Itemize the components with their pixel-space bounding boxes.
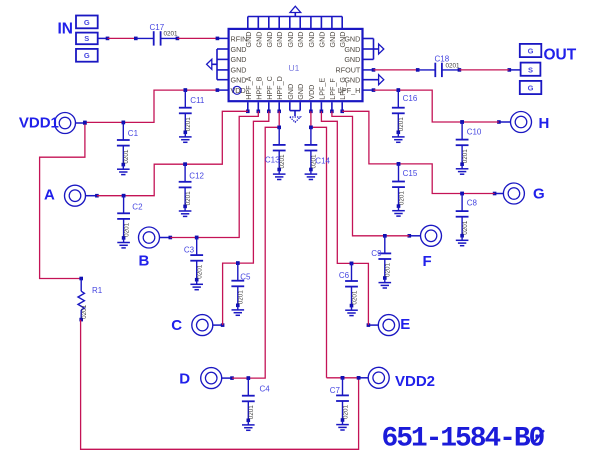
capacitor C1 bbox=[117, 121, 139, 167]
svg-text:GND: GND bbox=[344, 34, 360, 43]
svg-text:GND: GND bbox=[286, 84, 295, 100]
wire net A : HPF_A to port A bbox=[97, 111, 248, 197]
svg-text:GND: GND bbox=[328, 32, 337, 48]
svg-text:C8: C8 bbox=[467, 199, 478, 208]
wire C18 to OUT bbox=[459, 69, 509, 71]
pad G (OUT bottom) bbox=[520, 81, 542, 94]
svg-text:C6: C6 bbox=[339, 271, 350, 280]
right pin labels bbox=[336, 34, 361, 95]
wire net VDD pin (IC bottom) to VDD2 bbox=[309, 111, 326, 378]
svg-text:VDD2: VDD2 bbox=[395, 373, 435, 390]
wire net B : HPF_B to port B bbox=[170, 111, 258, 239]
svg-text:0201: 0201 bbox=[123, 222, 130, 237]
svg-text:0201: 0201 bbox=[446, 63, 461, 70]
IN S pad stub bbox=[98, 37, 110, 41]
wire net E : LPF_E to port E bbox=[321, 111, 368, 325]
svg-text:0201: 0201 bbox=[398, 117, 405, 132]
svg-text:C17: C17 bbox=[150, 23, 165, 32]
svg-text:651-1584-B0: 651-1584-B0 bbox=[382, 423, 545, 454]
wire C17 to RFIN bbox=[177, 37, 217, 39]
slash of zero in part number bbox=[535, 430, 544, 441]
port F bbox=[408, 225, 442, 270]
capacitor C5 bbox=[231, 261, 251, 307]
ground of C8 bbox=[456, 236, 469, 246]
pad S (OUT) bbox=[521, 63, 541, 76]
pin circle on VDD pin bbox=[233, 86, 241, 94]
svg-text:0201: 0201 bbox=[342, 404, 349, 419]
ground of C3 bbox=[190, 280, 203, 290]
wire net VDD1 row bbox=[85, 88, 219, 124]
right GND bracket bbox=[363, 39, 379, 60]
ground of C14 bbox=[305, 170, 318, 180]
capacitor C12 bbox=[179, 162, 205, 208]
ground of C7 bbox=[336, 420, 349, 430]
capacitor C9 bbox=[371, 234, 391, 280]
svg-text:0201: 0201 bbox=[197, 264, 204, 279]
ground of C6 bbox=[345, 306, 358, 316]
capacitor C15 bbox=[392, 162, 418, 208]
svg-text:RFOUT: RFOUT bbox=[336, 66, 361, 75]
svg-text:RFIN: RFIN bbox=[231, 34, 248, 43]
port VDD1 bbox=[19, 113, 87, 134]
svg-text:0201: 0201 bbox=[462, 149, 469, 164]
offpage arrow top (VCC) bbox=[290, 6, 301, 12]
pad S (IN) bbox=[76, 33, 98, 45]
bottom pin stubs bbox=[246, 102, 344, 113]
capacitor C2 bbox=[117, 194, 143, 240]
port G bbox=[493, 183, 545, 204]
ground of C12 bbox=[179, 206, 192, 216]
capacitor C7 bbox=[330, 376, 350, 422]
capacitor C13 bbox=[265, 126, 286, 172]
svg-text:GND: GND bbox=[296, 32, 305, 48]
svg-text:GND: GND bbox=[344, 45, 360, 54]
svg-text:GND: GND bbox=[296, 84, 305, 100]
pad G (IN top) bbox=[76, 16, 98, 29]
svg-text:LPF_E: LPF_E bbox=[317, 78, 326, 100]
ground of C13 bbox=[273, 170, 286, 180]
svg-text:F: F bbox=[423, 253, 432, 270]
svg-text:0201: 0201 bbox=[185, 191, 192, 206]
wire net H : LPF_H to port H bbox=[374, 88, 499, 123]
capacitor C17 bbox=[134, 23, 179, 45]
svg-text:A: A bbox=[44, 187, 55, 204]
offpage arrow right (GND row5) bbox=[379, 75, 384, 85]
svg-text:D: D bbox=[179, 370, 190, 387]
svg-text:G: G bbox=[528, 47, 534, 56]
svg-text:0201: 0201 bbox=[248, 405, 255, 420]
port C bbox=[171, 315, 224, 336]
port E bbox=[367, 315, 411, 336]
RFOUT pin stub bbox=[363, 68, 376, 72]
OUT S pad stub bbox=[508, 68, 521, 72]
ground of C4 bbox=[242, 420, 255, 430]
port D bbox=[179, 368, 234, 389]
svg-text:HPF_C: HPF_C bbox=[265, 76, 274, 100]
svg-text:GND: GND bbox=[344, 55, 360, 64]
svg-text:C5: C5 bbox=[240, 273, 251, 282]
capacitor C10 bbox=[456, 120, 482, 166]
left pin labels bbox=[231, 34, 248, 95]
svg-text:C15: C15 bbox=[403, 169, 418, 178]
wire net VDD2 row bbox=[327, 376, 361, 380]
svg-text:C11: C11 bbox=[190, 96, 205, 105]
svg-text:C: C bbox=[171, 317, 182, 334]
svg-text:C10: C10 bbox=[467, 127, 482, 136]
ground of C16 bbox=[392, 132, 405, 142]
svg-text:C3: C3 bbox=[184, 246, 195, 255]
svg-text:VDD1: VDD1 bbox=[19, 115, 59, 132]
svg-text:GND: GND bbox=[317, 32, 326, 48]
capacitor C18 bbox=[416, 54, 461, 77]
svg-text:S: S bbox=[528, 65, 533, 74]
port VDD2 bbox=[357, 367, 435, 390]
svg-text:B: B bbox=[139, 252, 150, 269]
svg-text:GND: GND bbox=[254, 32, 263, 48]
ground of C10 bbox=[456, 164, 469, 174]
svg-text:H: H bbox=[539, 115, 550, 132]
wire net F : LPF_F to port F bbox=[332, 111, 409, 237]
svg-text:0201: 0201 bbox=[385, 262, 392, 277]
wire net D : HPF_D to port D bbox=[232, 111, 281, 380]
left GND bracket bbox=[212, 49, 229, 80]
svg-text:GND: GND bbox=[286, 32, 295, 48]
svg-text:G: G bbox=[84, 51, 90, 60]
wire RFOUT to C18 bbox=[374, 69, 418, 71]
capacitor C8 bbox=[456, 192, 478, 238]
ground of C5 bbox=[232, 305, 245, 315]
svg-text:E: E bbox=[400, 316, 410, 333]
svg-text:GND: GND bbox=[231, 45, 247, 54]
svg-text:HPF_D: HPF_D bbox=[275, 76, 284, 100]
svg-text:0201: 0201 bbox=[462, 220, 469, 235]
capacitor C16 bbox=[392, 88, 418, 134]
svg-text:HPF_A: HPF_A bbox=[244, 76, 253, 99]
svg-text:0201: 0201 bbox=[398, 191, 405, 206]
wire net R1 to bottom rail to VDD2 bbox=[81, 320, 359, 450]
svg-text:G: G bbox=[528, 84, 534, 93]
svg-text:0201: 0201 bbox=[351, 290, 358, 305]
capacitor C6 bbox=[339, 262, 358, 308]
svg-text:GND: GND bbox=[265, 32, 274, 48]
ground of C9 bbox=[379, 278, 392, 288]
svg-text:0201: 0201 bbox=[279, 154, 286, 169]
wire net G : LPF_G to port G bbox=[342, 111, 494, 195]
bottom pin labels bbox=[244, 76, 347, 100]
svg-text:C12: C12 bbox=[189, 172, 204, 181]
svg-text:C4: C4 bbox=[260, 385, 271, 394]
top GND pin stubs and bus wire bbox=[248, 13, 342, 29]
svg-text:G: G bbox=[84, 18, 90, 27]
offpage arrow left (GND) bbox=[207, 59, 212, 69]
wire net VDD1 to R1 bbox=[40, 121, 87, 281]
svg-text:LPF_F: LPF_F bbox=[328, 78, 337, 100]
svg-text:0201: 0201 bbox=[81, 304, 88, 319]
bottom GND bracket bbox=[290, 102, 300, 116]
port H bbox=[497, 112, 549, 133]
svg-text:0201: 0201 bbox=[164, 31, 179, 38]
VDD pin stub (left row6) bbox=[217, 89, 228, 91]
svg-text:C7: C7 bbox=[330, 386, 341, 395]
svg-text:C1: C1 bbox=[128, 129, 139, 138]
svg-text:LPF_G: LPF_G bbox=[338, 77, 347, 100]
ground of C2 bbox=[117, 238, 130, 248]
svg-text:C2: C2 bbox=[132, 203, 143, 212]
ground of C15 bbox=[392, 206, 405, 216]
capacitor C11 bbox=[179, 88, 205, 134]
offpage arrow down (GND) bbox=[290, 117, 301, 122]
svg-text:0201: 0201 bbox=[185, 117, 192, 132]
svg-text:GND: GND bbox=[275, 32, 284, 48]
svg-text:HPF_B: HPF_B bbox=[254, 76, 263, 99]
ground of C11 bbox=[179, 132, 192, 142]
offpage arrow right (GND rows1-3) bbox=[379, 44, 384, 54]
op-amp U1 body bbox=[229, 29, 363, 101]
svg-text:GND: GND bbox=[231, 55, 247, 64]
right GND pin stub row5 bbox=[363, 79, 379, 81]
wire IN to C17 bbox=[108, 37, 136, 39]
LPF_H pin stub bbox=[363, 88, 376, 92]
RFIN pin stub bbox=[216, 37, 229, 41]
svg-text:S: S bbox=[84, 34, 89, 43]
svg-text:GND: GND bbox=[307, 32, 316, 48]
capacitor C3 bbox=[184, 236, 204, 282]
svg-text:C16: C16 bbox=[403, 94, 418, 103]
svg-text:GND: GND bbox=[231, 66, 247, 75]
pad G (OUT top) bbox=[520, 44, 542, 57]
svg-text:VDD: VDD bbox=[307, 85, 316, 100]
port B bbox=[139, 227, 173, 269]
svg-text:IN: IN bbox=[58, 21, 74, 38]
svg-text:C9: C9 bbox=[371, 249, 382, 258]
capacitor C14 bbox=[305, 126, 331, 172]
pad G (IN bottom) bbox=[76, 49, 98, 62]
svg-text:0201: 0201 bbox=[238, 290, 245, 305]
svg-text:G: G bbox=[533, 185, 545, 202]
top pin labels GND x10 bbox=[244, 32, 347, 48]
svg-text:0201: 0201 bbox=[311, 154, 318, 169]
svg-text:0201: 0201 bbox=[123, 149, 130, 164]
svg-text:C13: C13 bbox=[265, 156, 280, 165]
svg-text:U1: U1 bbox=[289, 63, 300, 73]
svg-text:R1: R1 bbox=[92, 286, 103, 295]
ground of C1 bbox=[117, 165, 130, 175]
port A bbox=[44, 185, 99, 206]
capacitor C4 bbox=[242, 376, 270, 422]
resistor R1 bbox=[78, 279, 103, 322]
svg-text:OUT: OUT bbox=[544, 46, 577, 63]
wire net C : HPF_C to port C bbox=[223, 111, 269, 325]
